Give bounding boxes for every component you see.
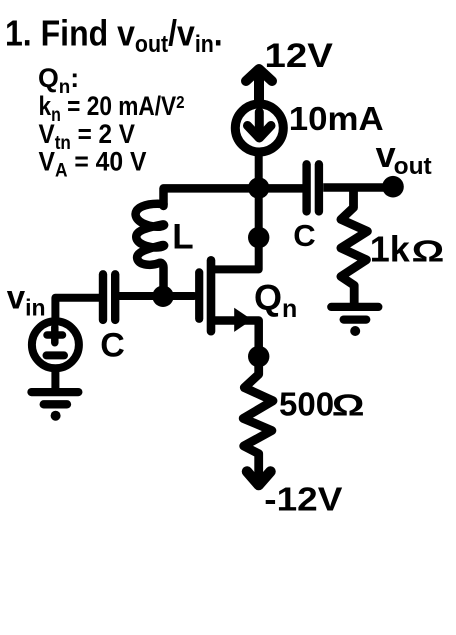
ground (vin) dot — [51, 411, 61, 421]
svg-text:L: L — [172, 218, 193, 257]
svg-text:500: 500 — [279, 385, 334, 422]
gate node — [152, 286, 173, 307]
parameter text kn = 20 mA/V2 — [39, 91, 185, 125]
inductor L — [136, 204, 165, 290]
vin source V1 circle — [32, 321, 79, 368]
parameter text Vtn = 2 V — [39, 120, 135, 153]
vin source plus sign — [47, 327, 63, 342]
svg-text:vout: vout — [376, 134, 432, 180]
output capacitor C plate 2 — [315, 164, 323, 211]
vout terminal dot — [382, 176, 404, 198]
svg-text:-12V: -12V — [264, 481, 343, 518]
current source I1 circle — [235, 104, 283, 152]
wire: top horizontal rail with corner down to inductor — [164, 188, 304, 206]
svg-text:Qn: Qn — [254, 277, 297, 323]
wire: input cap to gate — [120, 292, 195, 300]
MOSFET Qn channel bar — [207, 260, 216, 331]
svg-text:Ω: Ω — [332, 387, 365, 422]
vin source minus sign — [47, 351, 65, 359]
resistor 500 ohm — [243, 357, 273, 485]
svg-text:12V: 12V — [265, 36, 333, 74]
title: 1. Find vout/vin. — [5, 14, 223, 57]
current source I1 inner down arrow — [248, 112, 272, 138]
svg-text:VA = 40 V: VA = 40 V — [39, 148, 148, 181]
ground (vin) bar 1 — [32, 388, 79, 396]
svg-text:C: C — [100, 327, 125, 365]
ground (1k) dot — [350, 326, 360, 336]
parameter text VA = 40 V — [39, 148, 148, 181]
svg-text:1k: 1k — [370, 229, 411, 270]
wire: vin source to ground — [51, 368, 59, 390]
output capacitor C plate 1 — [302, 164, 310, 211]
source node — [248, 346, 269, 367]
svg-text:10mA: 10mA — [289, 100, 384, 137]
ground (1k) bar 2 — [344, 315, 367, 323]
input capacitor C plate 1 — [99, 274, 107, 320]
input capacitor C plate 2 — [111, 274, 119, 320]
svg-text:C: C — [293, 218, 315, 253]
+12V supply arrow — [246, 69, 272, 102]
junction node at rail — [248, 177, 269, 198]
ground (vin) bar 2 — [44, 400, 67, 408]
-12V supply arrow head — [247, 472, 271, 486]
svg-text:vin: vin — [7, 278, 46, 320]
svg-text:Ω: Ω — [412, 233, 445, 268]
wire: vin source to input cap — [55, 298, 99, 320]
resistor 1k ohm — [341, 189, 368, 304]
parameter text Qn: — [38, 63, 79, 98]
node on drain wire — [248, 227, 269, 248]
ground (1k) bar 1 — [331, 303, 378, 311]
wire: main vertical from current source to drain corner — [215, 152, 259, 269]
MOSFET Qn gate bar — [195, 272, 203, 318]
MOSFET Qn source wire with corner down — [215, 321, 259, 358]
svg-text:1. Find vout/vin.: 1. Find vout/vin. — [5, 14, 223, 57]
wire: output cap to vout — [323, 183, 385, 192]
MOSFET Qn source arrow — [234, 308, 252, 332]
